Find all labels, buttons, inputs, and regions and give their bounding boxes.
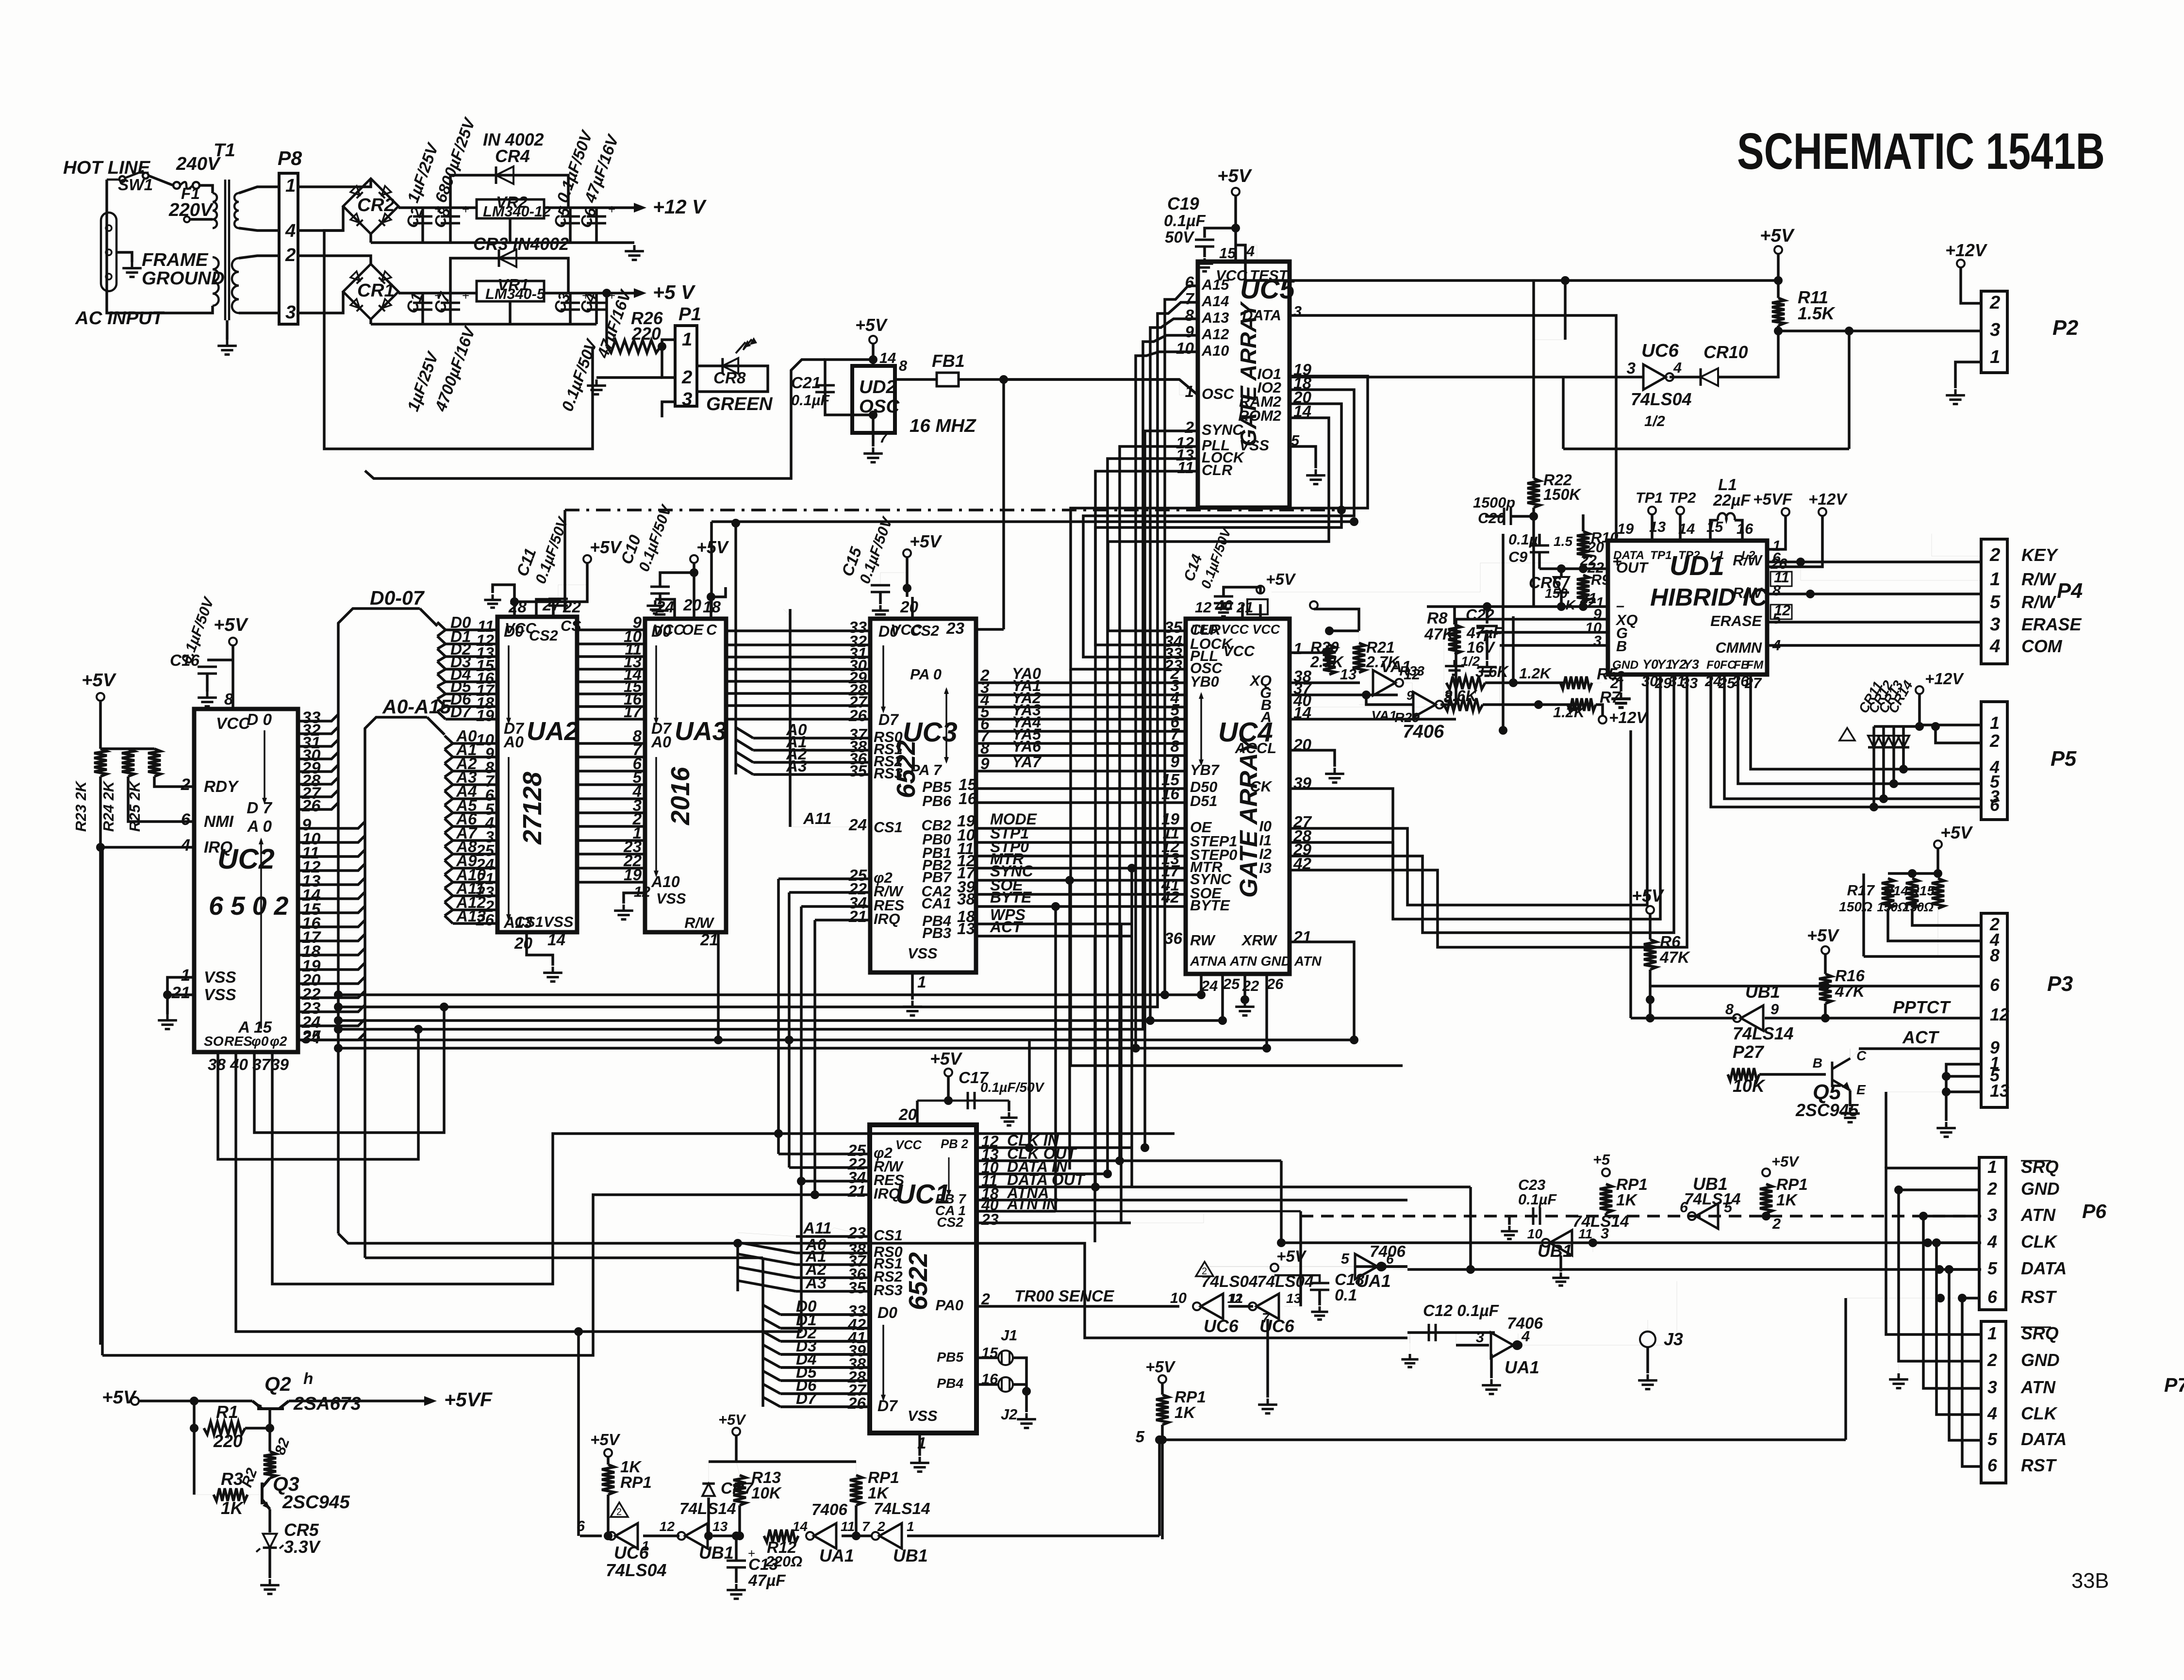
wire frame gnd [116, 252, 132, 262]
svg-text:ATN: ATN [2020, 1205, 2056, 1225]
svg-text:+: + [608, 202, 615, 216]
svg-text:+12V: +12V [1925, 670, 1964, 688]
jumper J2 [998, 1377, 1013, 1392]
svg-text:8: 8 [899, 357, 908, 374]
svg-text:4: 4 [181, 836, 190, 855]
svg-text:+5: +5 [1593, 1151, 1610, 1168]
junction R26 out [658, 342, 666, 351]
UC3 D arrow [882, 645, 884, 709]
wire serial 5 [1962, 1298, 1981, 1466]
wire UC6 out [1670, 376, 1701, 379]
dot p3 13b [1942, 1087, 1951, 1096]
svg-text:1.2K: 1.2K [1519, 665, 1552, 682]
connector P5 [1981, 702, 2007, 820]
wire UC2 A0 tap [298, 822, 365, 828]
svg-text:3: 3 [1601, 1225, 1609, 1242]
dot UD1 leftcol [1499, 726, 1507, 735]
svg-text:7: 7 [862, 1519, 870, 1534]
wire UA2 A11 row [453, 894, 497, 897]
svg-text:1: 1 [181, 966, 190, 985]
svg-text:1: 1 [1990, 569, 2000, 590]
wire c18 gnd [1318, 1290, 1321, 1305]
bridge rectifier CR1 diode [379, 299, 391, 311]
resistor R25 [148, 749, 161, 776]
svg-text:13: 13 [1990, 1081, 2009, 1101]
dot A13 ext [1146, 1016, 1155, 1025]
bus D chain 1 [437, 644, 446, 649]
IC UD1 HYBRID IC [1608, 541, 1767, 675]
svg-text:9: 9 [1406, 689, 1414, 703]
wire R5 junction [1592, 682, 1602, 683]
wire RW to UC3 [789, 891, 870, 894]
wire UA2 D2 chain [437, 648, 446, 649]
resistor R10 [1577, 531, 1589, 558]
dot RW1 [1796, 558, 1805, 566]
wire UC5 test stub [1236, 245, 1257, 262]
wire UA2 D4 diag [437, 674, 446, 682]
UA2 vcc dot [510, 597, 519, 606]
svg-text:2: 2 [285, 245, 296, 265]
wire R2021 top [1329, 629, 1359, 632]
svg-text:F0: F0 [1706, 659, 1721, 672]
svg-text:PA 0: PA 0 [910, 666, 942, 683]
wire UA2 D5 diag [437, 686, 446, 694]
svg-text:1: 1 [1990, 346, 2000, 367]
wire sec2b [239, 312, 279, 314]
dot 21 b [1579, 602, 1588, 611]
UA2 D arrow [508, 645, 510, 721]
wire UA2 cs27 net [564, 510, 565, 612]
wire r13 down [738, 1505, 741, 1536]
wire C22 bot [1486, 634, 1489, 660]
svg-text:6: 6 [1990, 795, 2000, 815]
wire C16 [207, 659, 233, 661]
svg-text:6: 6 [181, 810, 191, 829]
connector P7 [1981, 1321, 2006, 1483]
transistor Q3 2SC945 [262, 1478, 270, 1509]
UC2 D arrow [264, 730, 265, 801]
bus A chain 2 [445, 771, 453, 777]
svg-text:1.5K: 1.5K [1798, 304, 1836, 323]
diode CR4 [496, 166, 513, 184]
svg-text:8: 8 [224, 691, 233, 708]
wire UA2 D7 chain [437, 711, 446, 712]
resistor R23 [94, 749, 107, 776]
wire q2 base down [268, 1409, 271, 1451]
wire q2 bar conn [252, 1401, 260, 1406]
wire A13 ext [1150, 1019, 1223, 1022]
wire J2 [976, 1383, 999, 1386]
wire UC5 ctl PLL [1120, 446, 1198, 1161]
wire J3 top [1647, 1320, 1648, 1332]
wire UA2-UA3 A2 [577, 770, 645, 773]
testpoint TP2 [1676, 507, 1684, 514]
svg-text:16V: 16V [1467, 639, 1496, 656]
wire UC3 D30 [728, 668, 870, 671]
svg-text:YA6: YA6 [1012, 738, 1041, 755]
ground C19 [1196, 258, 1213, 271]
svg-text:SW1: SW1 [118, 176, 153, 194]
svg-text:C: C [706, 621, 717, 638]
wire UC3 D29 [728, 680, 870, 683]
power +5V uc6bot [604, 1449, 612, 1457]
svg-text:P7: P7 [2164, 1374, 2184, 1396]
UC4 gnd dot [1241, 995, 1249, 1004]
dot uc4 p26 [1262, 1044, 1271, 1053]
svg-text:TR00 SENCE: TR00 SENCE [1014, 1287, 1115, 1305]
wire p3 13 [1946, 1076, 1981, 1092]
wire UC2 A11 tap [298, 977, 365, 984]
C10 dot [690, 568, 698, 577]
svg-text:33B: 33B [2071, 1569, 2109, 1593]
wire UD2 5V run [365, 360, 825, 478]
capacitor C21 [815, 385, 835, 392]
svg-text:UD2: UD2 [859, 377, 896, 397]
svg-text:10: 10 [1527, 1226, 1543, 1241]
UC2 A arrow [260, 840, 262, 1029]
wire gnd rail bottom [371, 323, 596, 326]
wire rail 5Vin [398, 292, 477, 295]
svg-text:E: E [1856, 1082, 1866, 1097]
UC2 VSS dot [163, 990, 172, 999]
wire UA2 A9 diag [445, 860, 453, 868]
arrow +12V [634, 203, 646, 213]
svg-text:+12 V: +12 V [653, 196, 707, 218]
dot uc5 ctl LOCK [1103, 1169, 1112, 1178]
bus D chain 6 [437, 707, 446, 711]
capacitor C1 [413, 303, 432, 310]
wire RES [236, 1052, 801, 1332]
svg-text:D0-07: D0-07 [370, 587, 425, 609]
wire c23 left [1509, 1216, 1532, 1217]
svg-text:D7: D7 [877, 1397, 898, 1415]
dot C17 [944, 1096, 953, 1105]
dot SO [414, 1025, 423, 1034]
wire UC2 A10 tap [298, 963, 365, 970]
connector P8 [279, 173, 298, 324]
ground Q5 [1840, 1107, 1860, 1122]
diode CR11 [1868, 736, 1880, 747]
svg-text:GATE ARRAY: GATE ARRAY [1235, 736, 1262, 898]
svg-text:9: 9 [1170, 753, 1179, 771]
svg-text:5: 5 [1987, 1259, 1998, 1278]
svg-text:1: 1 [682, 329, 692, 350]
resistor R14 [1906, 878, 1919, 908]
svg-text:+5V: +5V [1276, 1248, 1307, 1266]
wire R33 net [1485, 681, 1565, 684]
svg-text:P27: P27 [1733, 1042, 1765, 1062]
wire UA2 A9 row [453, 867, 497, 870]
wire UA2 A0 diag [445, 736, 453, 743]
wire c12 row [1407, 1331, 1495, 1334]
wire P8-4 to CR2 [298, 206, 343, 231]
svg-text:3.6K: 3.6K [1475, 663, 1509, 680]
diode CR7 [702, 1483, 715, 1496]
power +5V UC5 [1232, 188, 1240, 196]
wire c13 bot [735, 1567, 738, 1583]
svg-text:RW: RW [1190, 932, 1216, 949]
svg-text:+12V: +12V [1945, 241, 1988, 260]
svg-text:2: 2 [877, 1519, 885, 1534]
svg-text:A11: A11 [803, 1219, 832, 1237]
svg-text:1500p: 1500p [1473, 494, 1515, 511]
svg-text:UB1: UB1 [1745, 982, 1780, 1002]
svg-text:J2: J2 [1001, 1406, 1017, 1423]
wire UC1 D4 [780, 1366, 870, 1369]
wire UC1 A2 [796, 1276, 870, 1279]
wire UA2 A13 row [453, 922, 497, 925]
wire uc3 rs diag 1596 [736, 764, 753, 774]
ground CR5 [260, 1579, 280, 1594]
dot p5 12v [1915, 722, 1924, 731]
power +5V R11 [1774, 246, 1782, 254]
capacitor C15 [871, 585, 890, 592]
UC5 vss wire [1290, 446, 1316, 468]
junction SYNC [1065, 876, 1074, 885]
svg-text:TP2: TP2 [1678, 549, 1700, 562]
svg-text:R/W: R/W [2021, 593, 2057, 612]
svg-text:47K: 47K [1424, 626, 1456, 643]
svg-text:5: 5 [1724, 1199, 1733, 1216]
svg-text:OSC: OSC [1202, 385, 1234, 402]
resistor R15 [1932, 878, 1944, 908]
cap C4 stub [595, 293, 598, 324]
inverter VA1b [1413, 692, 1436, 717]
wire G row [1290, 693, 1398, 696]
svg-text:A10: A10 [1201, 342, 1229, 359]
wire R6 top [1649, 914, 1652, 939]
ground UA3 top [646, 600, 663, 613]
bus D chain 0 [437, 630, 446, 636]
wire rp1 top [1161, 1383, 1164, 1395]
svg-text:+5V: +5V [718, 1411, 746, 1428]
svg-text:35: 35 [848, 1279, 866, 1297]
UA2 gnd wire [527, 932, 553, 966]
wire LED loop [697, 366, 768, 392]
wire F0 to P5 [1711, 675, 1981, 807]
wire WPS [976, 922, 1131, 925]
svg-text:150Ω: 150Ω [1839, 899, 1872, 914]
svg-text:ATNA ATN GND ATN: ATNA ATN GND ATN [1190, 954, 1322, 969]
junction IRQ [96, 843, 105, 852]
wire cr7 branch [708, 1462, 709, 1482]
svg-text:+5V: +5V [1771, 1153, 1800, 1170]
ground ua1b [1482, 1379, 1501, 1394]
UC4 pin24 stub [1200, 974, 1203, 995]
transistor Q5 [1832, 1058, 1850, 1090]
wire C11 [514, 563, 587, 602]
ground C18 [1311, 1306, 1328, 1319]
svg-text:1: 1 [907, 1519, 914, 1534]
UC4 pin25 stub [1221, 974, 1224, 1021]
wire R23 riser [99, 701, 102, 749]
wire p7 gnd stub [1898, 1361, 1899, 1372]
svg-text:2016: 2016 [666, 766, 695, 825]
wire UA2 A1 diag [445, 749, 453, 757]
wire UC2 D4 tap [298, 765, 338, 772]
dot r16 b [1821, 1014, 1830, 1022]
svg-text:26: 26 [301, 797, 321, 815]
wire UC2 A12 tap [298, 991, 365, 998]
capacitor C11 [548, 599, 568, 606]
wire YA7 [976, 770, 1186, 773]
svg-text:26: 26 [1770, 555, 1787, 572]
svg-text:P5: P5 [2051, 747, 2077, 771]
wire srq vert [1885, 1092, 1887, 1168]
wire A11 vert [789, 609, 792, 827]
wire YA3 [976, 718, 1186, 721]
svg-text:6: 6 [1386, 1252, 1394, 1267]
bus A chain 9 [445, 868, 453, 874]
wire C22/R8 rail [1427, 605, 1534, 608]
bus A chain 4 [445, 799, 453, 805]
svg-text:C20: C20 [1478, 510, 1505, 527]
wire R top rail [100, 747, 154, 750]
wire UC1 D1 [780, 1327, 870, 1330]
svg-text:3: 3 [682, 389, 692, 410]
dot UB1 in [1646, 1014, 1655, 1022]
wire YA6 [976, 754, 1186, 757]
wire UD1 gnd [1620, 675, 1622, 692]
wire YA1 [976, 693, 1186, 696]
wire XQ to VA1 [1290, 681, 1360, 684]
wire P2 node down [1848, 331, 1851, 449]
svg-text:5: 5 [1772, 610, 1781, 627]
dot P2 node [1845, 327, 1853, 335]
svg-text:3: 3 [1293, 303, 1302, 320]
svg-text:PB4: PB4 [937, 1376, 963, 1391]
svg-text:PB 2: PB 2 [941, 1137, 968, 1151]
power +5V R6 [1646, 906, 1654, 914]
connector P4 [1981, 539, 2007, 664]
wire P1 pin3 loop [662, 402, 675, 417]
wire ua1 in [1200, 1266, 1354, 1267]
svg-text:P1: P1 [678, 304, 701, 325]
svg-text:4: 4 [285, 220, 296, 241]
wire FB1 node down [1002, 379, 1005, 629]
svg-text:R29: R29 [1394, 710, 1420, 725]
wire ua1b out up [1518, 1334, 1519, 1345]
UA2 top gnd wire [493, 585, 514, 602]
resistor R12 [764, 1530, 798, 1542]
wire XRW net [1290, 942, 1354, 1040]
svg-text:OE: OE [682, 621, 704, 638]
dot J2 [1022, 1387, 1031, 1396]
bus D lower [365, 1256, 763, 1259]
wire rp1bot2 [855, 1505, 858, 1536]
wire UC1 A11b [796, 1235, 870, 1238]
wire UC5 vcc [1234, 196, 1237, 262]
wire UD2 vcc [872, 344, 875, 366]
bus A to UA2 cascade [427, 717, 445, 735]
svg-text:+5V: +5V [214, 614, 249, 635]
svg-text:50V: 50V [1165, 229, 1195, 247]
svg-text:5: 5 [1990, 592, 2001, 612]
wire UD2 gnd [872, 433, 875, 446]
IC UA2 27128 [497, 617, 577, 932]
svg-text:7406: 7406 [811, 1501, 848, 1519]
wire serial 4 [1949, 1269, 1981, 1440]
wire CR13 col [1892, 726, 1895, 784]
wire c13 top [735, 1536, 738, 1561]
wire C20 left [1485, 515, 1504, 518]
wire uc3 rs diag 1546 [736, 740, 753, 750]
wire osc ext h [1071, 1064, 1403, 1067]
IC UC3 6522 [870, 619, 976, 972]
dot uc5 ctl SYNC [1141, 1143, 1149, 1152]
bus D chain 3 [437, 669, 446, 674]
svg-text:2: 2 [1989, 544, 2000, 565]
wire R9 bot [1582, 602, 1585, 607]
svg-text:1: 1 [1772, 537, 1781, 554]
svg-text:DATA: DATA [1242, 307, 1281, 324]
svg-text:A 0: A 0 [247, 818, 272, 836]
ground C14 [1215, 603, 1232, 616]
svg-text:VSS: VSS [204, 969, 236, 987]
svg-text:0.1: 0.1 [1335, 1286, 1357, 1304]
wire hot to switch [149, 176, 173, 185]
bridge rectifier CR2 diode [379, 186, 391, 198]
wire UA2 D7 diag [437, 711, 446, 719]
svg-text:2: 2 [1202, 1266, 1207, 1277]
wire UC3 D31 [728, 656, 870, 659]
svg-text:35: 35 [849, 762, 867, 780]
svg-text:A0: A0 [651, 733, 671, 751]
inverter UB1 bot2 [879, 1523, 902, 1548]
wire UA2 D3 diag [437, 661, 446, 669]
dot R11 5V [1774, 276, 1783, 285]
svg-text:φ0: φ0 [251, 1034, 269, 1049]
dot A14 bus [334, 1003, 343, 1011]
resistor R5 [1560, 676, 1592, 689]
connector P1 [675, 326, 697, 406]
wire c12 gnd [1409, 1333, 1410, 1343]
svg-text:φ2: φ2 [270, 1034, 287, 1049]
dot uc4 p24 [1197, 990, 1206, 999]
wire r1 riser [193, 1401, 196, 1495]
UC2 VSS wire [167, 977, 194, 995]
svg-text:CA1: CA1 [922, 895, 951, 912]
svg-text:K: K [1566, 597, 1577, 612]
wire r3 leadb [194, 1494, 214, 1495]
cap C7 stub [449, 293, 452, 324]
resistor R8 [1448, 625, 1461, 654]
cap C6 stub [595, 208, 598, 243]
svg-text:38: 38 [957, 890, 976, 908]
svg-text:R3: R3 [221, 1469, 243, 1489]
transistor Q2 2SA673 [252, 1401, 289, 1409]
svg-text:CR8: CR8 [713, 369, 746, 387]
wire ATNIN [1056, 1210, 1301, 1213]
wire UA2 A2 row [453, 770, 497, 773]
wire VA1b in [1366, 695, 1413, 705]
svg-text:74LS04: 74LS04 [1631, 390, 1692, 409]
wire uc1 d diag 2845 [763, 1371, 780, 1381]
inverter UB1 bot [685, 1523, 708, 1548]
wire A10 ext [1136, 1047, 1267, 1050]
wire UC2 A4 tap [298, 878, 365, 885]
dot R33 [1509, 678, 1518, 687]
dot CR12 [1879, 794, 1888, 803]
wire R25 to RDY [154, 776, 194, 787]
junction rs vert [731, 519, 740, 527]
svg-text:10: 10 [1170, 1289, 1187, 1306]
wire r13 top [735, 1435, 738, 1462]
svg-text:P4: P4 [2057, 579, 2083, 603]
junction Abus uc1 [733, 1239, 742, 1248]
wire UA2 D1 diag [437, 636, 446, 644]
wire uc6a-uc6b [1228, 1305, 1253, 1308]
